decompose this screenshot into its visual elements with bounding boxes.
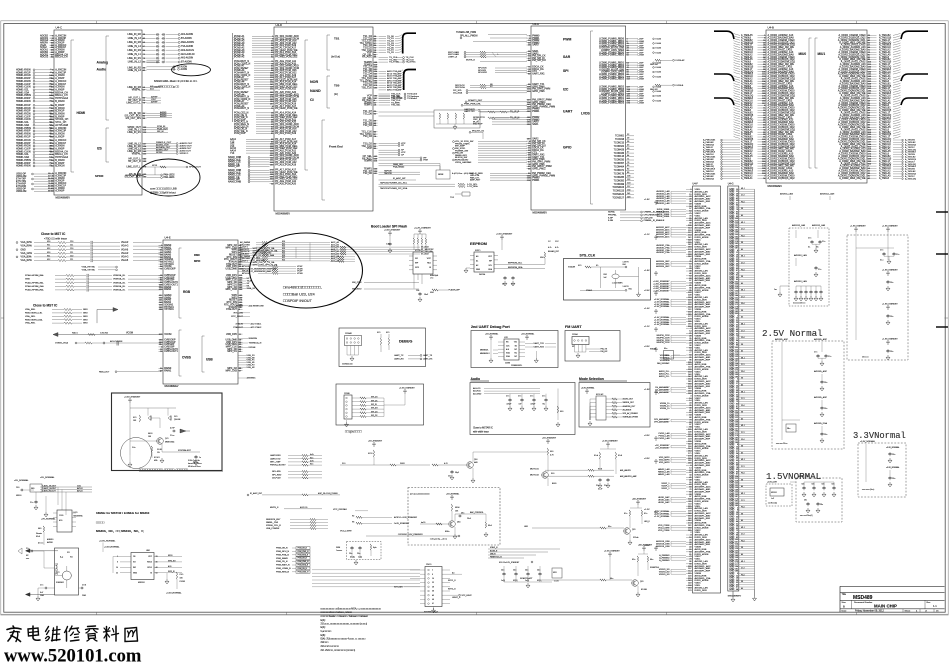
svg-text:VGA-R: VGA-R: [121, 241, 129, 244]
svg-text:8: 8: [432, 574, 433, 576]
svg-text:□□□□Ball U23, U24: □□□□Ball U23, U24: [283, 293, 315, 297]
svg-text:Boot Loader SPI Flash: Boot Loader SPI Flash: [371, 225, 407, 229]
+3V normal label mid-left: [41, 518, 56, 521]
svg-text:SPI: SPI: [563, 69, 569, 73]
svg-text:+3.3V_NORMAL: +3.3V_NORMAL: [104, 546, 120, 549]
svg-text:AVDD18_USB: AVDD18_USB: [656, 545, 670, 548]
svg-text:FLASH_WP: FLASH_WP: [449, 289, 461, 292]
svg-text:Mode Selection: Mode Selection: [579, 377, 604, 381]
svg-text:SPI_CS: SPI_CS: [371, 411, 378, 413]
svg-text:XTALOUT: XTALOUT: [233, 326, 244, 329]
svg-text:M1.1: M1.1: [741, 459, 745, 461]
svg-text:CSPI_EN: CSPI_EN: [644, 217, 653, 219]
svg-text:LV-B5: LV-B5: [656, 48, 662, 50]
svg-text:TCON215: TCON215: [614, 142, 625, 144]
svg-text:U6□: U6□: [146, 549, 151, 552]
svg-text:I2S_OUT_WS: I2S_OUT_WS: [126, 117, 142, 120]
svg-text:VGA_RGL: VGA_RGL: [25, 322, 36, 325]
svg-text:GND: GND: [83, 313, 88, 315]
svg-text:1PS_AMSAMBY: 1PS_AMSAMBY: [654, 420, 670, 423]
svg-text:I2S: I2S: [97, 147, 102, 151]
svg-text:BT-AUDIN: BT-AUDIN: [181, 61, 192, 64]
DEBUG box: [339, 328, 433, 367]
U4-C line-in coupling caps and connector terminals: [147, 33, 195, 71]
svg-text:RGB-VIDEO_LBL: RGB-VIDEO_LBL: [25, 313, 43, 315]
svg-text:U4-F: U4-F: [693, 183, 699, 186]
svg-text:R7□: R7□: [133, 416, 137, 419]
svg-text:B_RX1N: B_RX1N: [55, 165, 65, 168]
svg-text:TCON250: TCON250: [614, 160, 625, 162]
svg-text:BSCL4_CH: BSCL4_CH: [55, 56, 68, 59]
svg-text:LV-B5: LV-B5: [656, 67, 662, 69]
svg-text:A0: A0: [476, 255, 478, 258]
svg-text:10K: 10K: [133, 420, 137, 422]
keypad connector and wires: [394, 563, 472, 613]
svg-text:D7: D7: [548, 241, 551, 243]
svg-text:+1.1V: +1.1V: [644, 326, 650, 328]
svg-text:TS1_D6: TS1_D6: [363, 112, 372, 115]
svg-text:L-R5M: L-R5M: [638, 79, 645, 81]
FM UART title: [565, 325, 582, 329]
svg-text:2.0□: 2.0□: [132, 446, 136, 449]
svg-text:VGA_GDL: VGA_GDL: [25, 315, 36, 318]
svg-text:LVDS-4P: LVDS-4P: [676, 60, 685, 62]
svg-text:LCD8KI_PL/MN1_RBD1: LCD8KI_PL/MN1_RBD1: [599, 55, 625, 57]
svg-text:+1.8V: +1.8V: [644, 389, 650, 391]
svg-text:P3.4: P3.4: [741, 507, 745, 509]
svg-text:HP_OUT_R: HP_OUT_R: [128, 160, 141, 163]
svg-text:LIGHT_S: LIGHT_S: [448, 56, 458, 58]
svg-text:R4□: R4□: [38, 527, 42, 530]
svg-text:PGM_OE_N: PGM_OE_N: [298, 568, 308, 570]
svg-text:PGM_CMD_N: PGM_CMD_N: [298, 571, 310, 573]
svg-text:C7□: C7□: [530, 395, 534, 398]
svg-text:P3.4: P3.4: [741, 269, 745, 271]
svg-text:LINE_IN_L2: LINE_IN_L2: [128, 61, 142, 64]
svg-text:VDDM_15: VDDM_15: [660, 408, 670, 410]
note text close-to-MST IC lower with arrow bus: [25, 304, 118, 325]
svg-text:4x7k: 4x7k: [310, 461, 314, 463]
svg-text:PF_A20_PCM_A20: PF_A20_PCM_A20: [275, 182, 297, 185]
svg-text:DU□□: DU□□: [400, 462, 406, 465]
svg-text:LV-B5: LV-B5: [656, 91, 662, 93]
svg-text:TVA-AUDIN: TVA-AUDIN: [181, 45, 194, 48]
svg-text:43%: 43%: [154, 460, 158, 462]
SYS_CLK box with crystal circuit: [564, 259, 651, 301]
svg-text:10nF: 10nF: [424, 294, 429, 296]
svg-text:Analog: Analog: [97, 61, 109, 65]
svg-text:K9: K9: [741, 344, 743, 346]
power pin strip U4-G block (GND pins): [728, 183, 755, 598]
svg-text:L-R5M: L-R5M: [638, 103, 645, 105]
svg-text:C7□: C7□: [30, 501, 34, 504]
1.8V standby cap bank dashed box right: [847, 225, 908, 360]
svg-text:A_TM0DQ5: A_TM0DQ5: [703, 177, 715, 180]
svg-text:+3.3V_NORMAL: +3.3V_NORMAL: [581, 387, 594, 390]
svg-text:BAC_CONTROL: BAC_CONTROL: [470, 511, 483, 514]
svg-text:1%: 1%: [157, 452, 160, 454]
svg-text:USB_DP0: USB_DP0: [226, 333, 238, 336]
svg-text:GSM: GSM: [336, 547, 341, 549]
svg-text:VGA-R: VGA-R: [121, 252, 129, 255]
svg-text:XTALOUT: XTALOUT: [226, 308, 237, 311]
svg-text:SPDIF: SPDIF: [156, 152, 163, 154]
svg-text:LCD8KI_PL/MN2_RBD2: LCD8KI_PL/MN2_RBD2: [599, 79, 625, 81]
svg-text:CLK: CLK: [506, 345, 510, 347]
svg-text:L-R5M: L-R5M: [638, 55, 645, 57]
svg-text:EEPROM_SCL: EEPROM_SCL: [508, 262, 523, 264]
svg-text:M1.1: M1.1: [741, 290, 745, 292]
svg-text:DDC2-DA: DDC2-DA: [455, 86, 465, 89]
svg-text:TS1_D3: TS1_D3: [363, 124, 372, 127]
svg-text:GND R2: GND R2: [650, 89, 658, 91]
svg-text:36: 36: [156, 562, 158, 564]
svg-text:P3.4: P3.4: [741, 303, 745, 305]
1.5V regulator and cap bank boxes: [766, 476, 842, 522]
svg-text:TCON18: TCON18: [615, 139, 625, 141]
svg-text:Close to MST IC: Close to MST IC: [33, 304, 58, 308]
svg-text:VCC_LIGHT: VCC_LIGHT: [340, 531, 352, 533]
boot flash IC U23 SPI flash: [409, 249, 438, 280]
svg-text:FMA-AUDIN: FMA-AUDIN: [181, 41, 194, 44]
svg-text:TCON3127: TCON3127: [612, 198, 624, 200]
svg-text:WAKEUP: WAKEUP: [473, 123, 483, 126]
svg-text:FB2: FB2: [604, 274, 607, 276]
svg-text:DVDD_DDR: DVDD_DDR: [695, 590, 708, 592]
svg-text:VGA-G: VGA-G: [121, 256, 129, 259]
svg-text:SPDIF_OUT-GANG: SPDIF_OUT-GANG: [125, 174, 144, 177]
svg-text:VGA_B0%: VGA_B0%: [21, 256, 32, 259]
svg-text:SPI_DO: SPI_DO: [371, 408, 378, 410]
svg-text:VGA_R0%: VGA_R0%: [21, 245, 32, 248]
svg-text:8: 8: [117, 562, 118, 564]
svg-text:TCON1113: TCON1113: [613, 191, 625, 193]
svg-text:3.3V□ T□5.2.4□: 3.3V□ T□5.2.4□: [188, 459, 201, 462]
svg-text:A_RX2P: A_RX2P: [55, 135, 65, 138]
svg-text:LINE_IN_R2: LINE_IN_R2: [127, 33, 141, 36]
svg-text:GPA2DN: GPA2DN: [249, 337, 258, 340]
svg-text:LVDS-B: LVDS-B: [676, 85, 684, 87]
svg-text:R7□: R7□: [377, 331, 381, 334]
svg-text:SDA: SDA: [506, 352, 510, 355]
2.5V Normal section title: [762, 328, 823, 339]
svg-text:PGM_RGA_N: PGM_RGA_N: [298, 553, 309, 556]
svg-text:Im□m 0.6□ V2□□□: Im□m 0.6□ V2□□□: [188, 462, 203, 465]
svg-text:A-p: A-p: [60, 556, 64, 559]
svg-text:100: 100: [148, 436, 151, 438]
svg-text:PF_A19_PCM_A19: PF_A19_PCM_A19: [275, 163, 297, 166]
svg-text:(In): (In): [334, 92, 338, 96]
svg-text:AVDDIO_ADC: AVDDIO_ADC: [656, 236, 670, 239]
svg-text:V-ADC-IN-OUT: V-ADC-IN-OUT: [42, 490, 56, 493]
svg-text:+3_3V_STANDBY: +3_3V_STANDBY: [414, 227, 431, 230]
svg-text:C7□: C7□: [506, 395, 510, 398]
svg-text:PM_SPI_DO: PM_SPI_DO: [532, 59, 546, 62]
svg-text:AUX-AUD-IN: AUX-AUD-IN: [181, 53, 195, 56]
boot flash power symbols: [384, 227, 431, 253]
svg-text:□□SPDIF IN/OUT: □□SPDIF IN/OUT: [283, 299, 313, 303]
svg-text:TCON429: TCON429: [614, 149, 625, 151]
svg-text:Sheater: Sheater: [36, 532, 42, 535]
svg-text:C7□: C7□: [40, 584, 44, 587]
svg-text:GND: GND: [83, 323, 88, 325]
svg-text:C7.2: C7.2: [741, 500, 745, 502]
svg-text:AVDDIO_PSA: AVDDIO_PSA: [656, 251, 670, 254]
power pin strip U4-F block (core supplies): [686, 183, 721, 594]
svg-text:TCON392: TCON392: [614, 180, 625, 182]
svg-text:□+3V_STANDBY: □+3V_STANDBY: [394, 522, 410, 525]
svg-text:TS1_D6: TS1_D6: [363, 172, 372, 175]
svg-text:Close to MSTAR IC: Close to MSTAR IC: [473, 427, 493, 430]
svg-text:SAR0: SAR0: [532, 44, 539, 47]
svg-text:TS Mode1: TS Mode1: [407, 98, 418, 100]
svg-text:K9: K9: [741, 513, 743, 515]
svg-text:A_TM1LDQ: A_TM1LDQ: [905, 177, 916, 180]
svg-text:R7□: R7□: [386, 331, 390, 334]
svg-text:GNT_JTAF: GNT_JTAF: [270, 461, 281, 464]
svg-text:NDIR: NDIR: [438, 174, 444, 176]
svg-text:C11: C11: [70, 245, 73, 247]
svg-text:HDMI1-RX1P: HDMI1-RX1P: [16, 135, 31, 138]
svg-text:4.7□: 4.7□: [444, 462, 448, 465]
svg-text:□ 24.576MHz: □ 24.576MHz: [612, 282, 623, 285]
svg-text:AU-R□□: AU-R□□: [473, 390, 481, 393]
svg-text:AVDDC2_LAN: AVDDC2_LAN: [820, 193, 835, 196]
svg-text:VGA_VSYNC: VGA_VSYNC: [82, 268, 96, 271]
svg-text:UART_RX2: UART_RX2: [534, 346, 545, 349]
svg-text:SPI-SDO: SPI-SDO: [478, 72, 487, 74]
svg-text:4□□: 4□□: [59, 519, 63, 522]
svg-text:R5□: R5□: [550, 450, 554, 453]
svg-text:SDPAL: SDPAL: [608, 211, 616, 214]
svg-text:AV2-AUD-IN: AV2-AUD-IN: [181, 49, 194, 52]
svg-text:USB_DM0: USB_DM0: [226, 267, 238, 270]
svg-text:XTAL1: XTAL1: [586, 289, 593, 292]
svg-text:S□: S□: [70, 556, 73, 559]
core voltage detect small box: [650, 347, 680, 365]
svg-text:C7.2: C7.2: [741, 330, 745, 332]
svg-text:+1.5V_NORMAL: +1.5V_NORMAL: [654, 323, 670, 326]
spi flash N201 power label: [99, 540, 116, 553]
1.5VNORMAL section title: [766, 471, 821, 482]
svg-text:D7□: D7□: [174, 415, 178, 418]
svg-text:AGSSMC: AGSSMC: [247, 377, 257, 380]
svg-text:AGND□: AGND□: [47, 538, 54, 541]
svg-text:AV1-S: AV1-S: [77, 490, 83, 493]
RGB ADC coupling rows into annotation ellipse: [240, 241, 434, 275]
svg-text:SERVICE_KEY: SERVICE_KEY: [266, 519, 281, 521]
svg-text:VCC: VCC: [427, 258, 432, 260]
svg-text:C7.2: C7.2: [741, 364, 745, 366]
svg-text:VGA-B: VGA-B: [121, 248, 129, 251]
svg-text:A2: A2: [476, 264, 478, 267]
watermark Chinese brush characters (drawn strokes): [7, 626, 138, 642]
right border zone tick dashes: [936, 212, 948, 327]
svg-text:+3.3V: +3.3V: [644, 458, 650, 460]
svg-text:MSD489MEV: MSD489MEV: [533, 212, 548, 215]
svg-text:Q5□: Q5□: [474, 458, 478, 461]
2nd UART Debug Port box: [471, 331, 558, 368]
svg-text:SW_CSN: SW_CSN: [352, 282, 362, 284]
svg-text:A1: A1: [476, 259, 478, 262]
svg-text:C7□□: C7□□: [170, 434, 175, 437]
svg-text:LINE_OUT_L: LINE_OUT_L: [126, 101, 141, 104]
VGA RGB termination rows group1: [16, 241, 161, 272]
svg-text:P3.4: P3.4: [741, 439, 745, 441]
svg-text:1u(1): 1u(1): [358, 557, 362, 559]
svg-text:VGTA_LAN/PAN: VGTA_LAN/PAN: [455, 161, 472, 164]
svg-text:UART_RX: UART_RX: [394, 358, 404, 361]
svg-text:P3.4: P3.4: [741, 541, 745, 543]
svg-text:RAIN1: RAIN1: [164, 369, 172, 372]
svg-text:R11: R11: [47, 245, 50, 247]
svg-text:SCK: SCK: [415, 267, 420, 269]
thick DDR bus sweep left lower: [714, 98, 734, 105]
svg-text:USB_N2: USB_N2: [247, 367, 256, 369]
svg-text:CN7□: CN7□: [426, 563, 432, 566]
MIU right net-name label column, fans and wires: [872, 33, 917, 180]
svg-text:SO: SO: [415, 258, 418, 260]
svg-text:DX-PLAY: DX-PLAY: [272, 477, 281, 480]
svg-text:A14 RESET-SW: A14 RESET-SW: [249, 305, 264, 308]
svg-text:+3V_STANDBY: +3V_STANDBY: [655, 446, 670, 449]
svg-text:B50□: B50□: [552, 482, 557, 485]
svg-text:LINE_IN_L3: LINE_IN_L3: [128, 37, 142, 40]
svg-text:PGM_OE_N: PGM_OE_N: [298, 548, 308, 550]
svg-text:Y2: Y2: [57, 572, 60, 574]
svg-text:VCC: VCC: [148, 556, 152, 558]
svg-text:EEPROM: EEPROM: [470, 241, 487, 246]
design notes text lines bottom margin: [321, 608, 382, 652]
svg-text:R4□□: R4□□: [148, 432, 153, 435]
backlight control dashed box with transistor: [408, 488, 500, 546]
EEPROM title: [470, 241, 487, 246]
main crystal oscillator box Y1: [36, 548, 86, 601]
svg-text:CPANEL_ID_ENABLE: CPANEL_ID_ENABLE: [644, 219, 665, 222]
svg-text:M1.1: M1.1: [741, 527, 745, 529]
3.3VNormal section title: [853, 431, 906, 441]
svg-text:VCOM: VCOM: [126, 333, 133, 335]
svg-text:+1.1V: +1.1V: [644, 234, 650, 236]
svg-text:C843: C843: [40, 595, 44, 597]
svg-text:PGM_CE_N: PGM_CE_N: [276, 561, 288, 563]
svg-text:Audio: Audio: [471, 377, 481, 381]
svg-text:GND: GND: [729, 589, 734, 591]
svg-text:ATV-U5: ATV-U5: [242, 272, 250, 275]
svg-text:RF_AGC: RF_AGC: [362, 56, 372, 59]
svg-text:U4-G: U4-G: [728, 183, 734, 186]
svg-text:AMP_RST: AMP_RST: [470, 179, 481, 182]
svg-text:SCL: SCL: [489, 265, 493, 267]
svg-text:AV1-AUDIN: AV1-AUDIN: [181, 33, 193, 36]
svg-text:C8□: C8□: [357, 552, 361, 555]
svg-text:PWON_LBLRXY: PWON_LBLRXY: [270, 465, 286, 467]
svg-text:SI: SI: [150, 572, 152, 574]
svg-text:C7□8: C7□8: [82, 584, 86, 587]
U4-D TS0 rows merging into second thick bus: [379, 70, 420, 101]
svg-text:I2C_SDA: I2C_SDA: [453, 91, 463, 94]
svg-text:TX1: TX1: [514, 342, 517, 344]
svg-text:U4-B: U4-B: [768, 26, 775, 30]
svg-text:K9: K9: [741, 446, 743, 448]
svg-text:AGND: AGND: [160, 115, 167, 118]
svg-text:1u: 1u: [199, 457, 201, 459]
svg-text:43: 43: [156, 567, 158, 569]
svg-text:PU203: PU203: [180, 581, 186, 583]
U4-D left pin labels / wires / vertical bus: [228, 33, 270, 184]
svg-text:VSM: VSM: [423, 160, 428, 162]
svg-text:MBGBDL: MBGBDL: [480, 350, 489, 352]
svg-text:SPI_CS: SPI_CS: [371, 397, 378, 399]
svg-text:470pF: 470pF: [531, 404, 536, 406]
svg-text:15: 15: [432, 578, 434, 580]
svg-text:+3.3V_STANDBY: +3.3V_STANDBY: [399, 387, 415, 390]
standby box caption underlined (Chinese): [139, 468, 223, 472]
svg-text:TU_IF_N: TU_IF_N: [510, 118, 520, 120]
svg-text:LV-B5: LV-B5: [656, 100, 662, 102]
CVBS RCA input row: [55, 340, 161, 345]
svg-text:VDD_MIPS: VDD_MIPS: [659, 462, 670, 464]
svg-text:AC2 XTAL1: AC2 XTAL1: [251, 323, 263, 326]
svg-text:MSD489MEV: MSD489MEV: [768, 185, 783, 188]
annotation circle on reset transistor: [121, 438, 152, 469]
PC audio termination rows group2: [25, 274, 162, 292]
svg-text:FM_RX: FM_RX: [601, 351, 608, 353]
svg-text:UART_RX1: UART_RX1: [532, 72, 545, 75]
svg-text:MUTE_S: MUTE_S: [270, 507, 279, 509]
U4-E right side wiring to MPIF/RMII nets: [231, 247, 278, 380]
svg-text:SI: SI: [429, 267, 431, 269]
svg-text:A5: A5: [741, 553, 743, 556]
annotation ellipse around SPDIF/LED nets: [137, 159, 200, 196]
svg-text:+3.3V_NORMAL: +3.3V_NORMAL: [166, 592, 182, 595]
thick DDR bus sweep right lower: [901, 98, 928, 105]
svg-text:VCOM: VCOM: [164, 333, 171, 336]
svg-text:MSD489MEV: MSD489MEV: [276, 213, 291, 216]
svg-text:VGA_G0%: VGA_G0%: [21, 252, 32, 255]
svg-text:SDA: SDA: [488, 268, 492, 271]
svg-text:R2: R2: [352, 516, 354, 518]
svg-text:SPDIF: SPDIF: [95, 174, 104, 178]
svg-text:AUDN: AUDN: [181, 68, 188, 71]
svg-text:C7.2: C7.2: [741, 263, 745, 265]
svg-text:IF_AGC_INT: IF_AGC_INT: [250, 492, 263, 495]
cpu flash programming header box: [336, 384, 424, 427]
svg-text:C7.2: C7.2: [741, 432, 745, 434]
svg-text:SAR1: SAR1: [532, 123, 539, 126]
U4-C left pin label columns and wires: [16, 35, 54, 168]
svg-text:+3.3V_STANDBY: +3.3V_STANDBY: [496, 233, 513, 236]
svg-text:M1.1: M1.1: [741, 222, 745, 224]
SYS_CLK title: [580, 254, 596, 258]
svg-text:P3.4: P3.4: [741, 574, 745, 576]
svg-text:SPDIF O: SPDIF O: [180, 153, 189, 155]
svg-text:TGGNDLA_G: TGGNDLA_G: [249, 342, 262, 345]
svg-text:RGB-VIDEO_DAL: RGB-VIDEO_DAL: [25, 318, 44, 321]
svg-text:□□□: □□□: [26, 557, 30, 560]
svg-text:+1.2V: +1.2V: [644, 509, 650, 511]
svg-text:C843: C843: [82, 595, 86, 597]
svg-text:GPL-RXD: GPL-RXD: [272, 474, 282, 476]
svg-text:P3.4: P3.4: [741, 202, 745, 204]
svg-text:Front End: Front End: [329, 145, 343, 149]
svg-text:GMA_S2: GMA_S2: [247, 287, 256, 290]
svg-text:+3V_NORMAL: +3V_NORMAL: [41, 518, 56, 521]
svg-text:SPI2_SO: SPI2_SO: [168, 560, 176, 562]
svg-text:R5□: R5□: [430, 291, 435, 294]
svg-text:AVDD05_SEC: AVDD05_SEC: [656, 265, 670, 268]
svg-text:+5V_STANDBY: +5V_STANDBY: [368, 440, 383, 443]
